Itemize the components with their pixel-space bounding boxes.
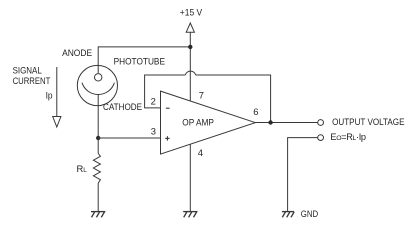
- op-amp inverting input marker -: [166, 107, 170, 109]
- op-amp U1 triangle: [161, 91, 256, 154]
- svg-text:OP AMP: OP AMP: [182, 117, 214, 127]
- svg-text:2: 2: [151, 95, 156, 106]
- ground symbol GND: [282, 212, 294, 218]
- node junction dot cathode/RL/pin3: [96, 136, 100, 140]
- phototube V1 envelope circle: [77, 65, 117, 105]
- svg-text:CATHODE: CATHODE: [103, 102, 142, 112]
- Eo terminal circle: [318, 135, 324, 141]
- wire RL to ground: [97, 184, 99, 212]
- svg-text:6: 6: [253, 106, 258, 117]
- resistor RL zigzag: [93, 153, 100, 184]
- svg-text:CURRENT: CURRENT: [13, 76, 51, 86]
- svg-text:+15 V: +15 V: [180, 8, 203, 18]
- wire Eo terminal to GND: [288, 138, 318, 212]
- wire hop over +15V line: [185, 71, 195, 75]
- wire +15V vertical down to op-amp pin 7: [189, 32, 191, 101]
- ground symbol below RL: [91, 212, 105, 218]
- svg-text:Ip: Ip: [46, 90, 53, 100]
- op-amp non-inverting input marker +: [165, 136, 169, 140]
- pin 4 wire to ground: [189, 144, 191, 211]
- phototube anode (small circle): [95, 74, 102, 81]
- wire op-amp output to terminal: [255, 122, 317, 124]
- wire anode top horizontal: [98, 47, 190, 73]
- ground symbol below op-amp: [183, 212, 197, 218]
- svg-text:SIGNAL: SIGNAL: [13, 66, 42, 76]
- svg-text:PHOTOTUBE: PHOTOTUBE: [114, 56, 165, 66]
- signal current arrow: [53, 67, 61, 127]
- wire cathode down to node: [97, 95, 99, 139]
- svg-text:4: 4: [198, 147, 203, 158]
- wire node down to resistor RL: [97, 138, 99, 153]
- output terminal circle: [318, 120, 324, 126]
- node junction dot at +15V line: [188, 45, 192, 49]
- svg-text:EO=RL·Ip: EO=RL·Ip: [330, 132, 366, 142]
- phototube cathode (arc): [82, 83, 114, 95]
- svg-text:7: 7: [199, 90, 204, 101]
- power supply +15V arrow symbol: [186, 23, 194, 32]
- svg-text:ANODE: ANODE: [62, 48, 92, 58]
- node junction dot at output: [268, 120, 272, 124]
- feedback wire: output up and over to pin 2 (hop over +15V line): [145, 75, 186, 108]
- svg-text:3: 3: [151, 126, 156, 137]
- svg-text:GND: GND: [301, 209, 319, 219]
- wire node to op-amp pin 3: [98, 137, 161, 139]
- svg-text:OUTPUT VOLTAGE: OUTPUT VOLTAGE: [332, 117, 404, 127]
